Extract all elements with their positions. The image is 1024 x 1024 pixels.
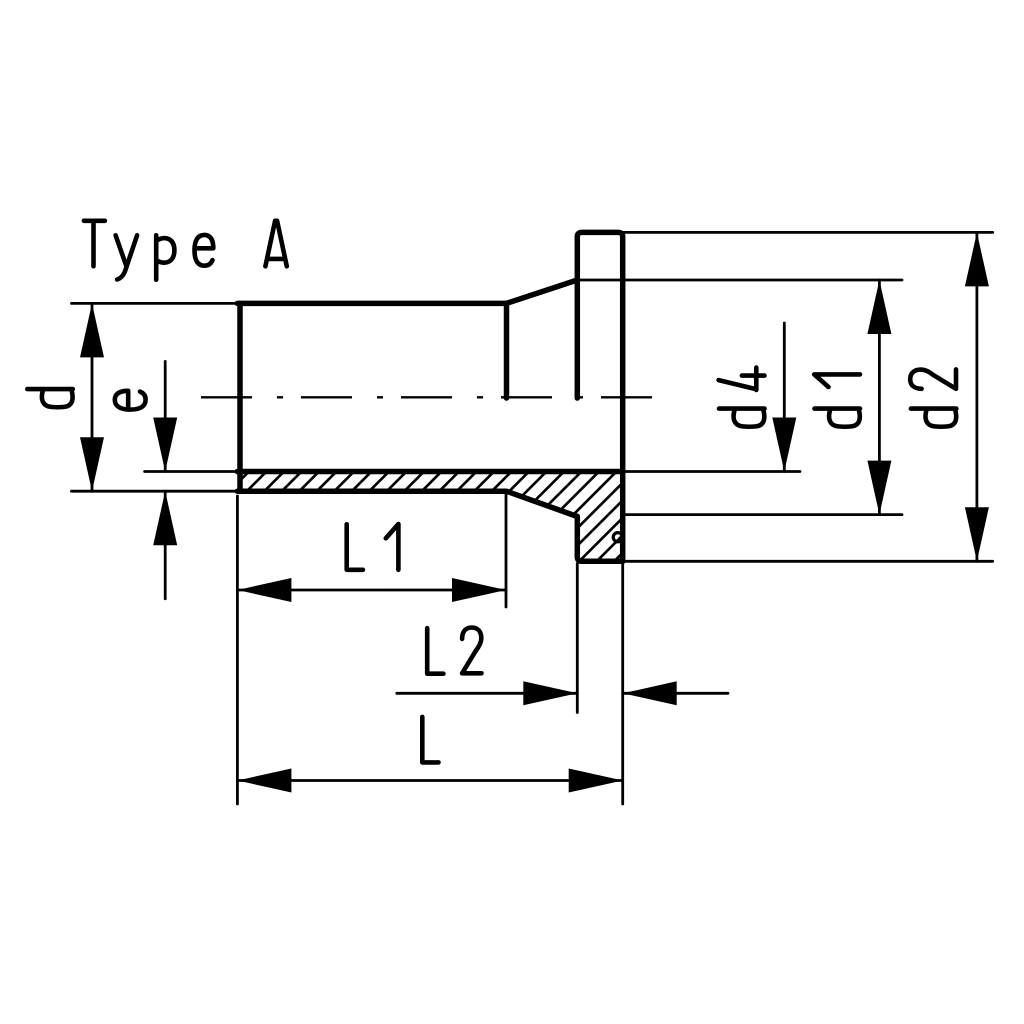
ext flange top right	[623, 231, 993, 234]
dimension d	[91, 303, 94, 491]
bore line section	[237, 469, 622, 475]
wall bottom outline	[237, 491, 577, 516]
extension lines	[72, 232, 993, 804]
ext vertical socket	[505, 494, 508, 607]
hatched section fill	[240, 472, 623, 562]
ext vertical flange right	[621, 561, 624, 804]
o-ring circle	[613, 533, 622, 542]
dimension d4	[783, 323, 786, 472]
dimension L2	[397, 692, 578, 695]
ext flange bottom right	[623, 560, 993, 563]
dimension L1	[237, 589, 506, 592]
ext d1 bottom right	[623, 513, 902, 516]
ext vertical body left	[236, 496, 239, 804]
dimension e	[164, 361, 167, 598]
title "Type A"	[84, 221, 287, 280]
dimension L	[237, 779, 622, 782]
flange lower outline	[577, 517, 622, 562]
tube left edge	[237, 303, 243, 491]
dimension d2	[976, 232, 979, 561]
centerline	[201, 396, 657, 398]
dimension d1	[878, 280, 881, 515]
tube top outline	[237, 280, 577, 303]
ext shoulder right	[577, 279, 902, 282]
ext bottom left	[72, 490, 241, 493]
socket depth edge	[504, 303, 510, 398]
flange upper outline	[577, 232, 622, 561]
ext top left	[72, 302, 241, 305]
ext bore right	[623, 470, 800, 473]
ext vertical flange left	[576, 564, 579, 713]
ext bore left	[145, 470, 240, 473]
